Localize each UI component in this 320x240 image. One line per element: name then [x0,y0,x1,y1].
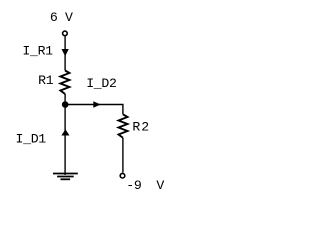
svg-text:I_D1: I_D1 [16,132,47,147]
junction node dot [62,101,69,108]
wire junction to ground [64,105,66,176]
svg-text:-9: -9 [126,178,141,193]
svg-text:I_R1: I_R1 [22,44,53,59]
terminal (-9 V port) [120,173,125,178]
ground bar 2 [57,176,74,178]
wire junction to R2 (horizontal then down) [65,105,123,115]
wire from 6V terminal to R1 [64,36,66,70]
wire R1 to junction node [64,94,66,105]
current arrow I_D2 (right) [93,101,100,108]
svg-text:V: V [156,178,164,193]
current arrow I_D1 (up) [61,129,69,135]
svg-text:6 V: 6 V [50,10,73,25]
terminal (6 V port) [63,31,68,36]
svg-text:R: R [132,120,140,135]
ground bar 3 [61,178,71,180]
current arrow I_R1 (down) [62,49,69,56]
wire R2 to -9V terminal [122,138,124,173]
ground bar 1 [53,173,78,175]
svg-text:2: 2 [141,120,149,135]
svg-text:R1: R1 [38,73,54,88]
resistor R1 [60,71,69,95]
resistor R2 [119,114,128,138]
svg-text:I_D2: I_D2 [86,76,116,91]
